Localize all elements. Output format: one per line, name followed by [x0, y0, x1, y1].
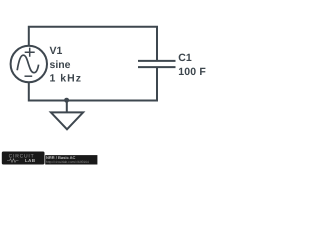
svg-text:C1: C1	[178, 52, 192, 64]
svg-text:http://circuitlab.com/c/685964: http://circuitlab.com/c/685964	[46, 160, 89, 164]
svg-text:V1: V1	[50, 45, 63, 57]
svg-text:100 F: 100 F	[178, 66, 206, 78]
svg-text:1 kHz: 1 kHz	[50, 72, 82, 84]
svg-text:LAB: LAB	[25, 158, 36, 163]
svg-text:sine: sine	[50, 59, 71, 71]
